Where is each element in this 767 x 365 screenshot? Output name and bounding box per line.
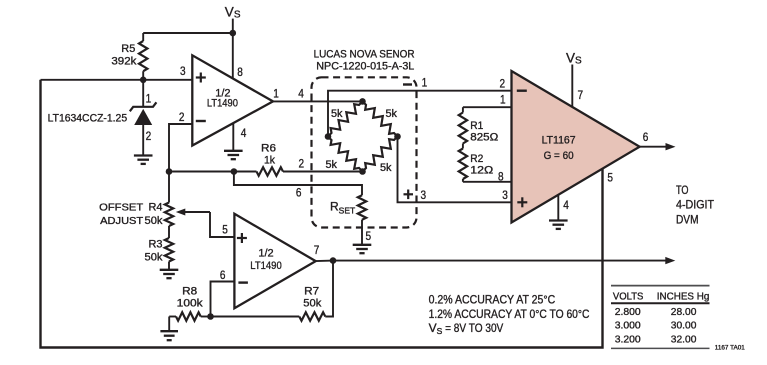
resistor R6 [257,167,284,175]
resistor R5 [139,33,147,80]
svg-text:1167 TA01: 1167 TA01 [715,345,746,352]
wire R7 to output node [325,261,333,317]
pin 7 label U1b [314,243,320,257]
svg-text:5k: 5k [331,108,343,120]
svg-text:R3: R3 [149,239,163,251]
label TO 4-DIGIT DVM [676,183,715,227]
junction dot wire2/wire6 [231,168,238,175]
svg-text:7: 7 [314,243,320,257]
table row 1 [615,306,697,318]
wire R6 to bridge [283,171,363,173]
svg-text:3: 3 [180,64,186,78]
svg-text:LT1490: LT1490 [250,260,282,272]
wire U1a output to bridge [273,100,363,102]
svg-text:VOLTS: VOLTS [613,290,644,302]
svg-text:3: 3 [421,188,427,202]
svg-text:LT1167: LT1167 [542,135,576,147]
sensor dashed box LUCAS NOVA SENOR [312,77,417,227]
svg-text:5: 5 [366,229,372,243]
svg-text:LT1634CCZ-1.25: LT1634CCZ-1.25 [48,112,128,124]
svg-text:INCHES Hg: INCHES Hg [657,290,710,302]
wire VS to R5 [143,32,233,34]
svg-text:28.00: 28.00 [671,306,697,318]
svg-text:3.000: 3.000 [615,320,641,332]
wire wiper to pin 5 U1b [210,212,234,237]
pin 8 label U2 [498,170,504,184]
sensor pin 1 label [422,75,428,89]
svg-text:NPC-1220-015-A-3L: NPC-1220-015-A-3L [316,61,414,73]
svg-text:1/2: 1/2 [258,247,273,259]
ground (R8) [160,317,178,341]
wiper arrow R4 [176,209,210,216]
svg-text:1k: 1k [264,154,275,166]
pin 5 label U2 [607,171,613,185]
label R4 50k [145,202,163,227]
wire row 2 left [169,171,257,173]
ground (U2 pin 4) [549,221,568,229]
svg-text:2: 2 [146,129,152,143]
label R7 50k [303,285,321,309]
junction dot R8/R7/pin6 [207,313,214,320]
wire pin 2 U1a [169,124,192,172]
op-amp U1b 1/2 LT1490 [234,214,315,308]
wire U1b output [316,260,333,263]
svg-text:8: 8 [498,170,504,184]
svg-text:5k: 5k [380,162,392,174]
svg-text:R6: R6 [261,143,276,155]
plus sign U1b [237,233,247,243]
bridge resistor 5k bottom-left [328,137,363,172]
svg-text:R4: R4 [149,202,163,214]
pin 4 label U1a [241,126,247,140]
plus sign U2 [517,197,527,207]
bridge node bottom [359,168,366,175]
bridge resistor 5k top-left [328,101,363,136]
wire pin 4 U1a [232,123,234,150]
minus sign U1b [238,281,248,283]
wire pin 4 U2 [557,195,559,220]
pin 4 label U2 [563,198,569,212]
pin 3 label U1a [180,64,186,78]
sensor pin 2 label [299,157,305,171]
wire pin 8 U1a [232,33,234,78]
ground (R3) [160,270,179,278]
table rules [611,286,710,349]
resistor R8 100k [169,312,210,320]
resistor R2 12ohm [459,144,467,182]
svg-text:32.00: 32.00 [671,333,697,345]
svg-text:DVM: DVM [676,213,699,227]
svg-text:7: 7 [578,88,584,102]
label LT1167 G=60 [542,135,576,162]
svg-text:TO: TO [676,183,689,197]
svg-text:3: 3 [502,188,508,202]
svg-text:5: 5 [222,222,228,236]
op-amp U2 LT1167 instrumentation amp [512,71,640,223]
svg-text:1.2% ACCURACY AT 0°C TO 60°C: 1.2% ACCURACY AT 0°C TO 60°C [429,307,590,321]
table row 2 [615,320,697,332]
pin 6 label U1b [220,268,226,282]
label 5k top-right [386,108,398,120]
ground (zener) [134,156,153,164]
wire pin 7 VS U2 [571,65,573,108]
svg-text:R5: R5 [121,43,135,55]
svg-text:LT1490: LT1490 [207,98,238,110]
pin 5 label U1b [222,222,228,236]
svg-text:0.2% ACCURACY AT 25°C: 0.2% ACCURACY AT 25°C [429,292,556,306]
svg-text:RSET: RSET [330,200,355,216]
svg-text:2: 2 [179,110,185,124]
svg-text:5k: 5k [326,159,338,171]
ground (RSET pin 5) [353,245,372,253]
svg-text:VS = 8V TO 30V: VS = 8V TO 30V [429,321,504,336]
svg-text:1: 1 [500,92,506,106]
svg-text:1: 1 [146,92,152,106]
svg-text:30.00: 30.00 [671,320,697,332]
svg-text:2: 2 [299,157,305,171]
label U1a 1/2 LT1490 [207,87,238,109]
bridge node left [325,133,332,140]
svg-text:VS: VS [566,51,582,67]
label 5k bottom-right [380,162,392,174]
label R3 50k [145,239,163,264]
op-amp U1a 1/2 LT1490 [192,55,273,145]
svg-text:6: 6 [220,268,226,282]
svg-text:50k: 50k [145,251,163,263]
wire sensor pin 6 [234,172,362,196]
pin 8 label U1a [237,65,243,79]
label RSET [330,200,355,216]
zener pin 2 label [146,129,152,143]
svg-text:R2: R2 [470,153,483,165]
label 5k bottom-left [326,159,338,171]
pin 1 label U1a output [273,86,279,100]
svg-text:5: 5 [607,171,613,185]
svg-text:R7: R7 [304,285,319,297]
svg-text:LUCAS NOVA SENOR: LUCAS NOVA SENOR [314,48,415,60]
sensor pin 6 label [296,185,302,199]
svg-text:6: 6 [643,130,649,144]
zener pin 1 label [146,92,152,106]
svg-text:8: 8 [237,65,243,79]
svg-text:3.200: 3.200 [615,333,641,345]
svg-text:G = 60: G = 60 [544,150,574,162]
label OFFSET ADJUST [99,203,144,228]
resistor R1 825ohm [459,107,467,143]
sensor pin 5 label [366,229,372,243]
label U1b 1/2 LT1490 [250,247,282,272]
svg-text:4-DIGIT: 4-DIGIT [676,197,715,211]
svg-text:50k: 50k [303,298,321,310]
svg-text:R1: R1 [470,120,483,132]
minus sign U1a [196,120,206,122]
wire feedback loop (left border, bottom, right up to pin 5) [41,80,603,348]
wire long output with arrow [333,257,675,264]
label R5 value [111,43,137,68]
net label VS (U2) [566,51,582,67]
svg-text:12Ω: 12Ω [470,164,493,176]
wire output pin 6 with arrow [640,143,676,150]
table row 3 [615,333,697,345]
wire bridge left node to IA minus [328,91,512,137]
ground (U1a pin 4) [224,151,243,159]
bridge node right [394,133,401,140]
wire pin 1 IA [463,106,512,108]
sensor pin 4 label [298,87,304,101]
svg-text:1: 1 [422,75,428,89]
svg-text:OFFSET: OFFSET [99,203,144,214]
node A: R5/zener/pin3 junction [140,77,147,84]
junction dot U1b output [330,257,337,264]
label LUCAS NOVA SENOR [314,48,415,72]
sensor plus polarity [404,190,414,200]
net label VS (top left) [225,4,241,20]
svg-text:6: 6 [296,185,302,199]
svg-text:2: 2 [500,77,506,91]
svg-text:825Ω: 825Ω [470,132,498,144]
pin 7 label U2 [578,88,584,102]
footnote 1167 TA01 [715,345,746,352]
svg-text:392k: 392k [111,55,137,67]
wire bridge right node to IA plus [398,137,512,203]
label R1 825 [470,120,498,144]
junction dot pin2/R4 [166,168,173,175]
svg-text:2.800: 2.800 [615,306,641,318]
wire node to R7 [211,316,300,318]
junction dot VS/pin8 [230,30,237,37]
label 5k top-left [331,108,343,120]
node VS top [232,19,234,33]
resistor R3 50k [165,226,173,269]
bridge resistor 5k top-right [363,101,398,136]
label R8 100k [177,285,204,309]
pin 1 label U2 [500,92,506,106]
label R2 12 [470,153,493,177]
plus sign U1a [196,73,206,83]
potentiometer R4 50k [165,172,173,227]
pin 3 label U2 [502,188,508,202]
svg-text:VS: VS [225,4,241,20]
bridge node top [359,98,366,105]
table header VOLTS / INCHES Hg [613,290,710,302]
pin 2 label U2 [500,77,506,91]
svg-text:100k: 100k [177,298,204,310]
svg-text:1: 1 [273,86,279,100]
pin 6 label U2 [643,130,649,144]
svg-text:4: 4 [298,87,304,101]
svg-text:R8: R8 [182,285,197,297]
wire pin 6 U1b [211,282,235,317]
resistor RSET [358,195,366,244]
zener diode LT1634CCZ-1.25 [130,80,157,155]
label LT1634CCZ-1.25 [48,112,128,124]
sensor minus polarity [403,83,412,85]
pin 2 label U1a [179,110,185,124]
svg-text:50k: 50k [145,215,163,227]
svg-text:ADJUST: ADJUST [100,216,144,227]
wire feedback top-left horizontal [41,79,193,81]
svg-text:4: 4 [241,126,247,140]
sensor pin 3 label [421,188,427,202]
label R6 1k [261,143,276,167]
minus sign U2 [517,89,527,91]
svg-text:5k: 5k [386,108,398,120]
svg-text:4: 4 [563,198,569,212]
bridge resistor 5k bottom-right [363,137,398,172]
note accuracy lines [429,292,590,335]
wire pin 8 IA [463,181,512,183]
resistor R7 50k [299,312,325,320]
